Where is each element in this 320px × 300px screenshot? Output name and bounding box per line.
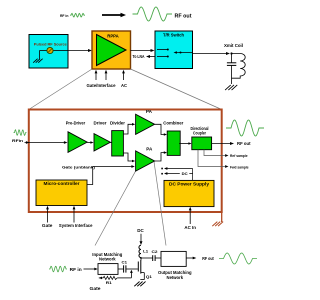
svg-text:RFin: RFin (12, 138, 24, 143)
svg-text:Network: Network (99, 257, 116, 262)
wire divider to PA top (123, 124, 132, 134)
svg-text:Combiner: Combiner (163, 121, 183, 126)
transistor Q1 (MOSFET) (137, 262, 139, 272)
svg-text:DC: DC (182, 171, 188, 176)
RFin sine (14, 130, 27, 136)
RPPA internal detail enclosure (29, 110, 222, 213)
svg-text:C2: C2 (152, 249, 159, 254)
wire T/R to Xmit coil (193, 53, 228, 55)
Fwd sample tap (198, 150, 225, 167)
DC feed to PA bottom (161, 173, 163, 175)
AC In arrow (189, 209, 191, 225)
resistor R1 branch (130, 270, 133, 273)
zoom line left (PA to transistor schematic) (95, 171, 136, 246)
Output Matching Network box (161, 251, 186, 266)
wire RPPA to T/R switch (131, 50, 152, 52)
inductor (xmit coil) (232, 54, 246, 79)
System Interface arrow (73, 208, 75, 223)
switch contacts (157, 49, 167, 51)
capacitor (xmit tank) (231, 54, 233, 63)
wire divider to PA bottom (123, 153, 132, 161)
svg-text:Q1: Q1 (146, 274, 153, 279)
svg-text:Fwd sample: Fwd sample (230, 165, 249, 170)
svg-text:Xmit Coil: Xmit Coil (224, 43, 243, 48)
svg-text:Gate/Interface: Gate/Interface (87, 83, 117, 88)
svg-text:RPPA: RPPA (107, 34, 119, 39)
svg-text:PA: PA (146, 109, 152, 114)
svg-text:System Interface: System Interface (59, 223, 93, 228)
DC Power Supply block (164, 180, 214, 206)
svg-text:Gate: Gate (90, 286, 102, 291)
wire RF in to input matching (84, 268, 95, 270)
RF out sine (middle) (226, 120, 264, 136)
zoom line left (RPPA to detail box) (29, 69, 92, 110)
source symbol (circle) (40, 50, 48, 52)
T/R Switch box (155, 31, 193, 69)
wire RFin into box (25, 142, 65, 144)
node DC (192, 169, 194, 181)
DC feed arrow (140, 234, 142, 242)
svg-text:Network: Network (167, 275, 184, 280)
RF in small sine waveform (70, 13, 85, 17)
capacitor C1 (118, 268, 123, 270)
svg-text:Divider: Divider (110, 121, 125, 126)
svg-text:RF in: RF in (70, 267, 82, 272)
svg-text:AC In: AC In (184, 225, 196, 230)
svg-text:Micro-controller: Micro-controller (44, 181, 80, 186)
svg-text:Coupler: Coupler (193, 131, 206, 136)
svg-text:Ref sample: Ref sample (230, 153, 248, 158)
ground (xmit tank) (232, 85, 238, 90)
svg-text:Pulsed RF Source: Pulsed RF Source (34, 41, 68, 46)
wire node to C2 (141, 257, 153, 259)
svg-text:RF out: RF out (175, 14, 192, 20)
Ref sample tap (204, 150, 225, 156)
svg-text:T/R Switch: T/R Switch (163, 33, 184, 38)
svg-text:Gate (unblank): Gate (unblank) (62, 164, 96, 169)
wire (87, 142, 91, 144)
svg-text:DC: DC (137, 228, 144, 233)
Gate arrow into micro-controller (47, 208, 49, 223)
svg-text:Driver: Driver (94, 121, 107, 126)
arrow (signal flow) (102, 14, 121, 16)
svg-text:RF out: RF out (202, 256, 214, 261)
wire to RF out (186, 257, 193, 259)
DC feed to PA top (161, 168, 163, 170)
inductor L1 (139, 245, 141, 257)
svg-text:L1: L1 (143, 248, 149, 253)
svg-text:To LNA: To LNA (133, 54, 145, 59)
zoom line right (154, 162, 166, 246)
wire PA top to combiner (155, 124, 164, 134)
amplifier triangle (RPPA) (97, 35, 127, 66)
wire source to RPPA (68, 50, 89, 52)
node drain (140, 257, 142, 259)
svg-text:AC: AC (121, 83, 127, 88)
RF out large sine waveform (133, 7, 173, 21)
RPPA box (92, 31, 131, 69)
RF out wire (crosses enclosure) (212, 143, 231, 145)
ground (source) (39, 51, 41, 59)
svg-text:C1: C1 (122, 260, 128, 265)
svg-text:RF out: RF out (237, 141, 251, 146)
wire PA bottom to combiner (155, 153, 164, 161)
enclosure ground (221, 213, 223, 223)
Pulsed RF Source box (29, 35, 68, 69)
wire (110, 142, 112, 144)
To LNA arrow (150, 56, 156, 58)
Micro-controller block (36, 180, 87, 206)
svg-text:Gate: Gate (42, 223, 53, 228)
svg-text:PA: PA (146, 146, 152, 151)
svg-text:DC Power Supply: DC Power Supply (169, 182, 210, 187)
Gate/Interface + AC arrows into RPPA (95, 72, 97, 81)
wire combiner to coupler (179, 143, 188, 145)
ground (Q1 source) (140, 282, 145, 287)
svg-text:RF in: RF in (60, 13, 69, 18)
zoom line right (131, 69, 222, 110)
svg-text:Pre-Driver: Pre-Driver (66, 121, 86, 126)
node (coil top junction) (230, 52, 232, 54)
svg-text:R1: R1 (106, 280, 113, 285)
RF out sine (bottom) (219, 253, 257, 264)
RF in sine (bottom) (49, 266, 67, 272)
